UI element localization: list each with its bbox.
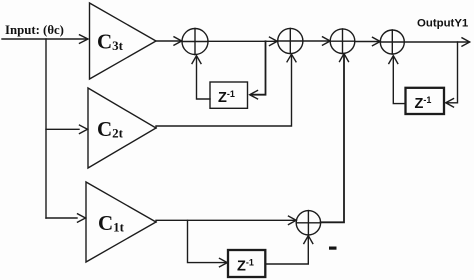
svg-text:Z-1: Z-1 xyxy=(237,258,254,275)
amplifier C3t xyxy=(90,3,157,79)
amplifier C1t xyxy=(86,182,156,262)
delay Z2 xyxy=(406,88,445,114)
summing junction S3 xyxy=(330,29,355,54)
wire S4 output to OutputY1 xyxy=(404,41,469,43)
svg-text:Input: (θc): Input: (θc) xyxy=(5,23,64,37)
wire S1 to S2 xyxy=(208,40,277,42)
wire Z2 output to S4 bottom xyxy=(393,57,405,104)
svg-text:C3t: C3t xyxy=(97,30,124,54)
wire C2t output to S2 bottom xyxy=(156,56,292,129)
wire C1t output to summing junction S5 xyxy=(156,220,296,222)
svg-text:Z-1: Z-1 xyxy=(218,89,235,106)
wire Z1 output to S1 bottom xyxy=(197,57,211,99)
svg-text:C2t: C2t xyxy=(97,117,124,141)
wire output branch down to Z2 xyxy=(447,42,458,103)
wire C1t branch down to Z3 xyxy=(188,220,227,262)
delay Z3 xyxy=(228,250,265,277)
wire branch to C2t xyxy=(46,128,79,130)
wire input branch vertical xyxy=(45,39,47,218)
amplifier C2t xyxy=(88,88,156,168)
svg-text:OutputY1: OutputY1 xyxy=(417,18,469,30)
summing junction S4 xyxy=(380,30,404,54)
wire S1 output branch down to Z1 xyxy=(251,41,266,94)
wire branch to C1t xyxy=(46,217,77,219)
summing junction S5 xyxy=(296,211,320,235)
wire S2 to S3 xyxy=(303,40,330,42)
wire Z3 output to S5 bottom xyxy=(265,237,308,264)
wire S3 to S4 xyxy=(355,41,380,43)
delay Z1 xyxy=(210,82,248,108)
svg-text:Z-1: Z-1 xyxy=(415,95,432,112)
wire input line xyxy=(2,38,87,40)
summing junction S2 xyxy=(278,28,303,53)
svg-text:C1t: C1t xyxy=(98,211,125,235)
summing junction S1 xyxy=(182,29,208,55)
wire S5 output up to S3 bottom xyxy=(321,55,344,222)
wire C3t output to summing junction S1 xyxy=(156,40,181,42)
label minus sign xyxy=(329,247,337,250)
